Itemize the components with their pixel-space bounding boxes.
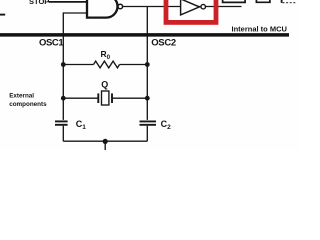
junction dot crystal left — [61, 96, 66, 101]
bottom wire — [63, 140, 147, 142]
resistor R0 row wires — [63, 64, 93, 66]
inverter output bubble — [201, 4, 206, 9]
junction dot R0 left — [61, 62, 66, 67]
cut-off mark left edge — [0, 14, 5, 16]
nand gate (STOP oscillator gate, top-cut) — [87, 0, 118, 18]
wire STOP to NAND input — [49, 1, 88, 3]
crystal Q body — [102, 91, 109, 105]
svg-text:Internal to MCU: Internal to MCU — [232, 24, 287, 33]
cut-off block A — [223, 0, 246, 2]
red highlight box — [166, 0, 216, 22]
cut-off block B — [256, 0, 270, 2]
cut-off block C (dashed) — [281, 0, 283, 3]
wire NAND output to right — [121, 6, 242, 8]
svg-text:OSC2: OSC2 — [151, 38, 176, 49]
crystal Q right electrode — [111, 93, 113, 103]
capacitor C2 plates (gap in right vertical) — [144, 120, 151, 126]
svg-text:components: components — [9, 101, 47, 108]
crystal Q left electrode — [97, 93, 99, 103]
junction dot ground — [103, 139, 108, 144]
svg-text:Q: Q — [101, 80, 108, 90]
resistor R0 zigzag — [94, 61, 120, 68]
wire OSC2 vertical — [146, 7, 148, 142]
svg-text:OSC1: OSC1 — [39, 38, 64, 49]
svg-text:STOP: STOP — [29, 0, 49, 6]
ground stub — [104, 141, 106, 150]
inverter U1 (highlighted) — [181, 0, 200, 15]
wire NAND lower input step — [63, 13, 87, 141]
MCU boundary thick line — [0, 33, 289, 37]
junction dot crystal right — [145, 96, 150, 101]
capacitor C1 plates (gap in left vertical) — [60, 120, 67, 126]
nand output bubble — [118, 4, 123, 9]
svg-text:External: External — [9, 93, 34, 100]
crystal Q row wires — [63, 97, 98, 99]
junction dot R0 right — [145, 62, 150, 67]
